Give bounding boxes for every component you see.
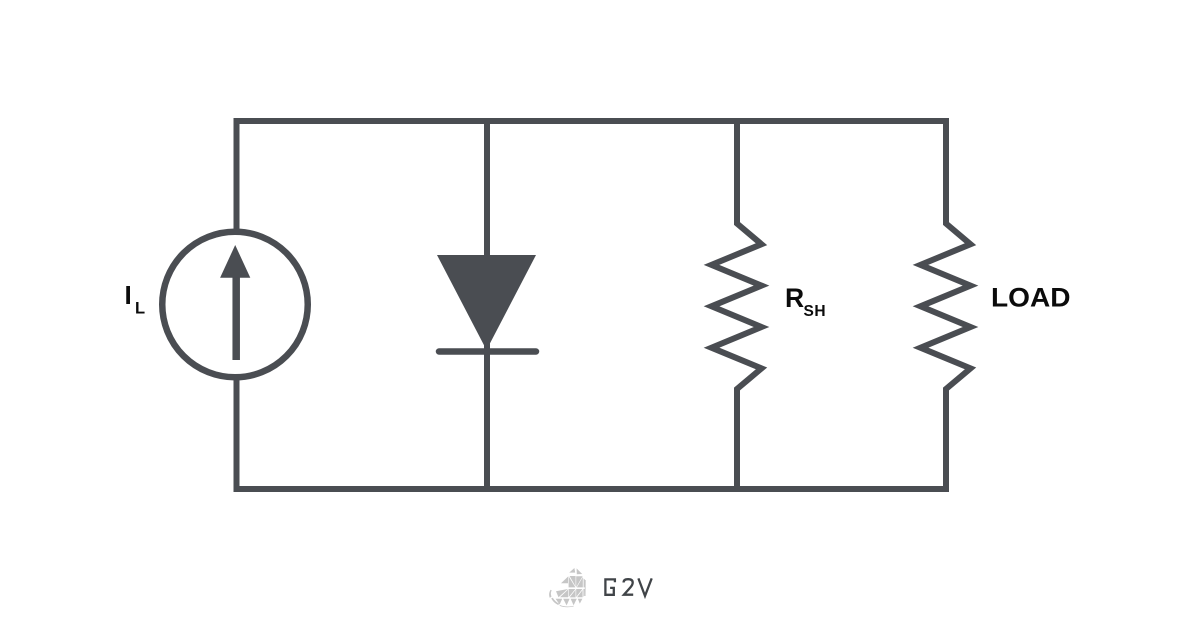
G2V logo globe icon — [549, 568, 586, 607]
svg-text:LOAD: LOAD — [991, 283, 1071, 313]
svg-text:L: L — [135, 300, 145, 318]
wire: top rail with left upper segment — [237, 121, 947, 230]
wire: diode branch vertical — [484, 121, 490, 489]
svg-text:I: I — [125, 280, 132, 310]
diode D1 triangle — [437, 255, 536, 350]
resistor RSH (zigzag with branch wires) — [712, 118, 762, 492]
current source IL circle — [162, 232, 308, 378]
svg-text:SH: SH — [804, 303, 827, 320]
svg-text:R: R — [785, 283, 804, 313]
G2V logo wordmark — [605, 578, 651, 596]
resistor LOAD (zigzag with branch wires) — [921, 118, 971, 492]
current source arrow shaft — [232, 275, 240, 360]
wire: bottom rail with left lower segment — [237, 379, 947, 489]
current source arrowhead — [220, 245, 250, 278]
diode D1 cathode bar — [439, 348, 536, 355]
